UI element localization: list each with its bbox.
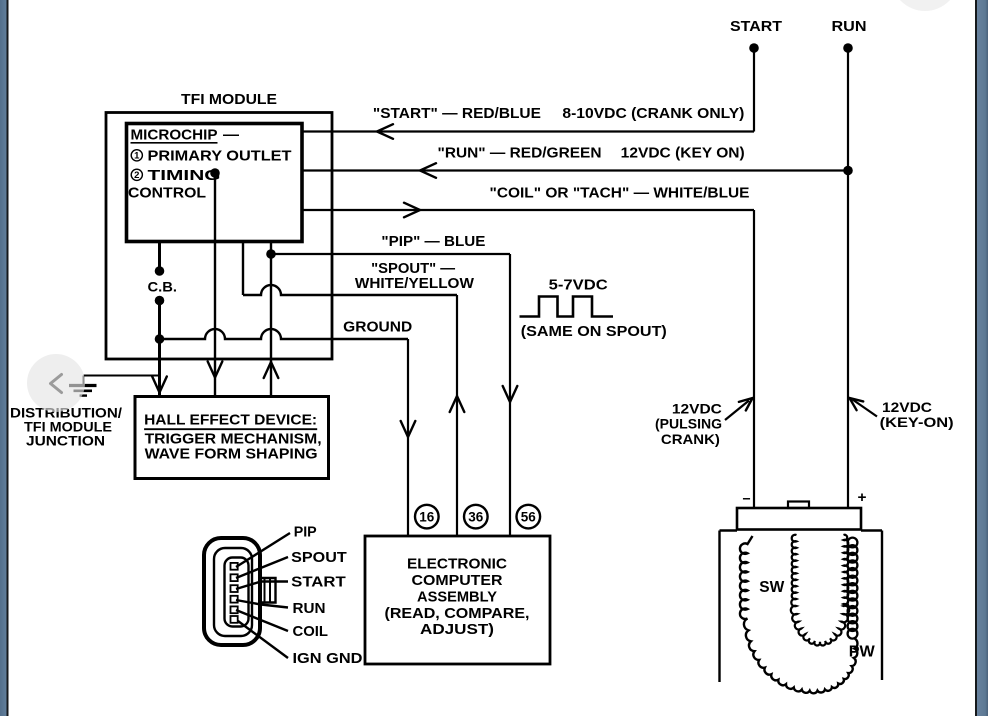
svg-text:ELECTRONIC: ELECTRONIC [407, 556, 507, 573]
svg-text:TFI MODULE: TFI MODULE [181, 91, 277, 108]
leader line pin RUN [236, 600, 288, 608]
TFI module outer box [106, 113, 332, 360]
svg-text:12VDC (KEY ON): 12VDC (KEY ON) [621, 146, 745, 162]
svg-text:HALL EFFECT DEVICE:: HALL EFFECT DEVICE: [144, 412, 317, 429]
svg-text:CONTROL: CONTROL [128, 185, 206, 202]
arrowhead SPOUT wire (up) [450, 396, 465, 412]
wire microchip to C.B. [158, 242, 161, 272]
svg-text:16: 16 [419, 510, 435, 525]
arrowhead 12VDC pulsing [739, 398, 753, 411]
svg-text:8-10VDC (CRANK ONLY): 8-10VDC (CRANK ONLY) [562, 106, 744, 122]
svg-text:+: + [858, 489, 867, 506]
svg-text:"SPOUT" —: "SPOUT" — [371, 261, 456, 277]
ground riser [83, 376, 85, 385]
arrowhead PIP branch (up) [264, 362, 279, 378]
svg-text:SPOUT: SPOUT [291, 549, 347, 566]
junction ground node [155, 334, 165, 344]
wire PIP vertical to computer [509, 254, 511, 536]
wire PIP horizontal [271, 253, 510, 255]
circled pin 1 symbol [131, 150, 142, 162]
arrowhead into hall device (down) left [152, 377, 167, 393]
electronic computer assembly box [365, 536, 550, 664]
connector latch tab [260, 578, 276, 603]
connector pin 5 [231, 606, 238, 613]
svg-text:MICROCHIP: MICROCHIP [131, 127, 218, 144]
wire PIP vertical from microchip [270, 242, 272, 397]
connector pin 3 [231, 585, 238, 592]
junction PIP tee [266, 249, 276, 259]
connector outer shell [204, 538, 260, 645]
leader line pin PIP [236, 533, 290, 567]
svg-text:C.B.: C.B. [148, 279, 178, 295]
junction RUN wire tee [843, 166, 853, 176]
leader line pin SPOUT [236, 557, 288, 578]
leader 12VDC pulsing [725, 401, 749, 421]
svg-text:12VDC: 12VDC [882, 399, 932, 415]
svg-text:56: 56 [521, 510, 537, 525]
wire RUN horizontal [302, 169, 848, 171]
wire SPOUT vertical to computer [456, 295, 458, 536]
node RUN terminal [843, 43, 853, 53]
svg-text:5-7VDC: 5-7VDC [549, 278, 609, 294]
svg-text:CRANK): CRANK) [661, 431, 720, 447]
svg-text:IGN GND: IGN GND [293, 650, 363, 667]
hall effect device box [135, 397, 329, 479]
microchip U1 box [127, 124, 303, 242]
square wave 5-7VDC symbol [520, 297, 614, 317]
underline MICROCHIP [131, 142, 218, 144]
svg-text:PIP: PIP [294, 524, 317, 541]
svg-text:ADJUST): ADJUST) [420, 621, 494, 638]
connector middle shell [214, 548, 252, 636]
arrowhead timing wire (down) [208, 362, 223, 378]
ignition coil cap [737, 508, 861, 530]
pin 36 circle [464, 505, 488, 529]
svg-text:(KEY-ON): (KEY-ON) [880, 414, 954, 430]
svg-text:PW: PW [849, 644, 876, 661]
leader line pin COIL [236, 610, 288, 631]
svg-text:PRIMARY OUTLET: PRIMARY OUTLET [148, 147, 292, 164]
wire timing vertical [214, 173, 216, 396]
wire SPOUT vertical from microchip [242, 242, 244, 296]
wire COIL vertical to ignition coil [753, 210, 755, 508]
node timing output [210, 168, 220, 178]
svg-text:"START" — RED/BLUE: "START" — RED/BLUE [373, 106, 541, 122]
connector pin 2 [231, 574, 238, 581]
wire from chassis ground [84, 375, 160, 377]
svg-text:(PULSING: (PULSING [655, 416, 722, 432]
svg-text:—: — [223, 127, 239, 144]
wire GROUND horizontal (hops over timing and PIP) [160, 329, 409, 339]
leader 12VDC keyon [853, 400, 878, 417]
pin 56 circle [517, 505, 541, 529]
wire COIL/TACH horizontal [302, 209, 754, 211]
svg-text:36: 36 [468, 510, 484, 525]
wire RUN vertical [847, 48, 849, 508]
connector pin 6 [231, 616, 238, 623]
wire START horizontal [302, 130, 754, 132]
connector pin 1 [231, 563, 238, 570]
svg-text:START: START [730, 19, 782, 35]
arrowhead COIL wire (right) [404, 203, 420, 218]
svg-text:ASSEMBLY: ASSEMBLY [417, 589, 497, 606]
wire C.B. to ground junction [158, 301, 161, 397]
svg-text:1: 1 [134, 151, 140, 162]
arrowhead RUN wire (left) [420, 163, 436, 178]
ignition coil body [720, 531, 883, 683]
svg-text:JUNCTION: JUNCTION [26, 433, 105, 449]
svg-text:TIMING: TIMING [148, 167, 221, 184]
svg-text:–: – [743, 490, 751, 507]
underline hall device [144, 428, 317, 430]
svg-text:RUN: RUN [832, 19, 867, 35]
node START terminal [749, 43, 759, 53]
inner winding loop [791, 535, 849, 646]
ignition coil top button [788, 502, 809, 509]
node C.B. lower terminal [155, 296, 165, 306]
svg-text:12VDC: 12VDC [672, 401, 722, 417]
wire START vertical [753, 48, 755, 132]
svg-text:"RUN" — RED/GREEN: "RUN" — RED/GREEN [438, 146, 602, 162]
primary winding PW coil loops [848, 538, 858, 639]
connector inner shell [225, 558, 249, 627]
arrowhead PIP wire (down) [503, 386, 518, 402]
circled pin 2 symbol [131, 169, 142, 181]
svg-text:GROUND: GROUND [343, 320, 412, 336]
svg-text:START: START [291, 574, 346, 591]
svg-text:WHITE/YELLOW: WHITE/YELLOW [355, 276, 474, 292]
svg-text:COMPUTER: COMPUTER [412, 572, 503, 589]
pin 16 circle [415, 505, 439, 529]
svg-text:"PIP" — BLUE: "PIP" — BLUE [381, 234, 485, 250]
svg-text:WAVE FORM SHAPING: WAVE FORM SHAPING [145, 446, 318, 463]
leader line pin START [236, 582, 288, 590]
wire SPOUT horizontal (hop over PIP) [243, 285, 457, 295]
svg-text:2: 2 [134, 170, 139, 181]
arrowhead 12VDC keyon [850, 398, 864, 410]
svg-text:(READ, COMPARE,: (READ, COMPARE, [385, 605, 530, 622]
leader line pin IGN GND [238, 621, 288, 658]
node C.B. upper terminal [155, 266, 165, 276]
svg-text:COIL: COIL [293, 623, 329, 640]
arrowhead GROUND wire (down) [401, 421, 416, 437]
svg-text:(SAME ON SPOUT): (SAME ON SPOUT) [521, 324, 667, 340]
ground symbol [69, 386, 97, 396]
svg-text:SW: SW [759, 579, 785, 596]
wire GROUND vertical to computer [407, 339, 409, 536]
arrowhead START wire (left) [377, 124, 393, 139]
svg-text:"COIL" OR "TACH" — WHITE/BLUE: "COIL" OR "TACH" — WHITE/BLUE [490, 186, 750, 202]
connector pin 4 [231, 596, 238, 603]
svg-text:RUN: RUN [293, 600, 326, 617]
secondary winding SW [740, 536, 858, 693]
